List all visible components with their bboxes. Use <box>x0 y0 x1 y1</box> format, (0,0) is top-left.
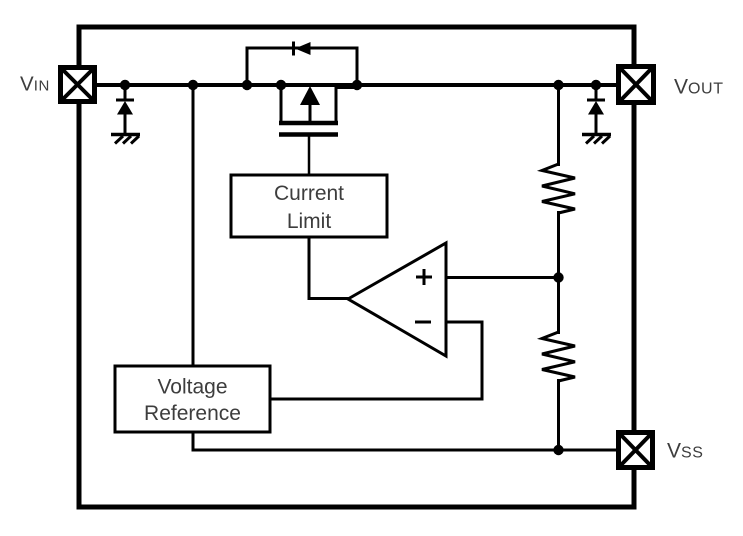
wire: Voltage Reference bottom to VSS rail <box>192 431 195 452</box>
label VOUT <box>674 76 724 99</box>
wire: R2 to VSS rail <box>557 379 560 450</box>
svg-text:Reference: Reference <box>144 402 241 425</box>
junction: feedback node between R1 and R2 <box>553 272 563 282</box>
junction: D1 on VIN rail <box>120 80 130 90</box>
wire: VOUT rail down to R1 <box>557 85 560 166</box>
transistor Q1 PMOS pass element <box>279 85 357 135</box>
wire: Current Limit to op-amp output <box>309 237 349 299</box>
wire: VSS rail <box>192 449 618 452</box>
wire: body diode branch <box>247 48 357 85</box>
label VIN <box>20 73 50 96</box>
block: Voltage Reference <box>115 366 270 432</box>
wire: VIN rail down to Voltage Reference supply <box>192 85 195 367</box>
wire: R1 to R2 through feedback node <box>557 211 560 334</box>
junction: body diode left on VIN rail <box>242 80 252 90</box>
svg-text:VSS: VSS <box>667 440 704 463</box>
junction: reference supply tap on VIN rail <box>188 80 198 90</box>
wire: VIN rail (VIN to VOUT across top) <box>97 83 617 87</box>
svg-text:Limit: Limit <box>287 210 332 233</box>
label VSS <box>667 440 704 463</box>
block: Current Limit <box>231 175 387 237</box>
pin VSS <box>619 433 653 468</box>
op-amp U1 error amplifier <box>348 243 446 356</box>
junction: D2 on VOUT rail <box>591 80 601 90</box>
svg-text:VIN: VIN <box>20 73 50 96</box>
body diode of pass transistor <box>294 42 311 56</box>
svg-text:VOUT: VOUT <box>674 76 724 99</box>
junction: body diode right on VOUT rail <box>352 80 362 90</box>
wire: gate to Current Limit <box>308 136 311 176</box>
junction: R2 bottom on VSS rail <box>553 445 563 455</box>
wire: op-amp - input loop from Voltage Reference <box>271 322 482 399</box>
resistor R1 top of divider <box>542 164 575 213</box>
svg-text:Current: Current <box>274 182 344 205</box>
pin VIN <box>61 68 95 102</box>
pin VOUT <box>619 67 654 103</box>
ESD diode D1 at VIN <box>116 86 134 134</box>
svg-text:Voltage: Voltage <box>157 376 227 399</box>
IC package outline <box>79 27 634 507</box>
wire: op-amp + input to feedback node <box>446 276 559 279</box>
ESD diode D2 at VOUT <box>587 86 605 134</box>
ground for D1 clamp <box>111 135 140 144</box>
resistor R2 bottom of divider <box>542 332 575 381</box>
junction: divider top on VOUT rail <box>553 80 563 90</box>
ground for D2 clamp <box>582 135 611 144</box>
junction: source tap on VIN rail <box>276 80 286 90</box>
